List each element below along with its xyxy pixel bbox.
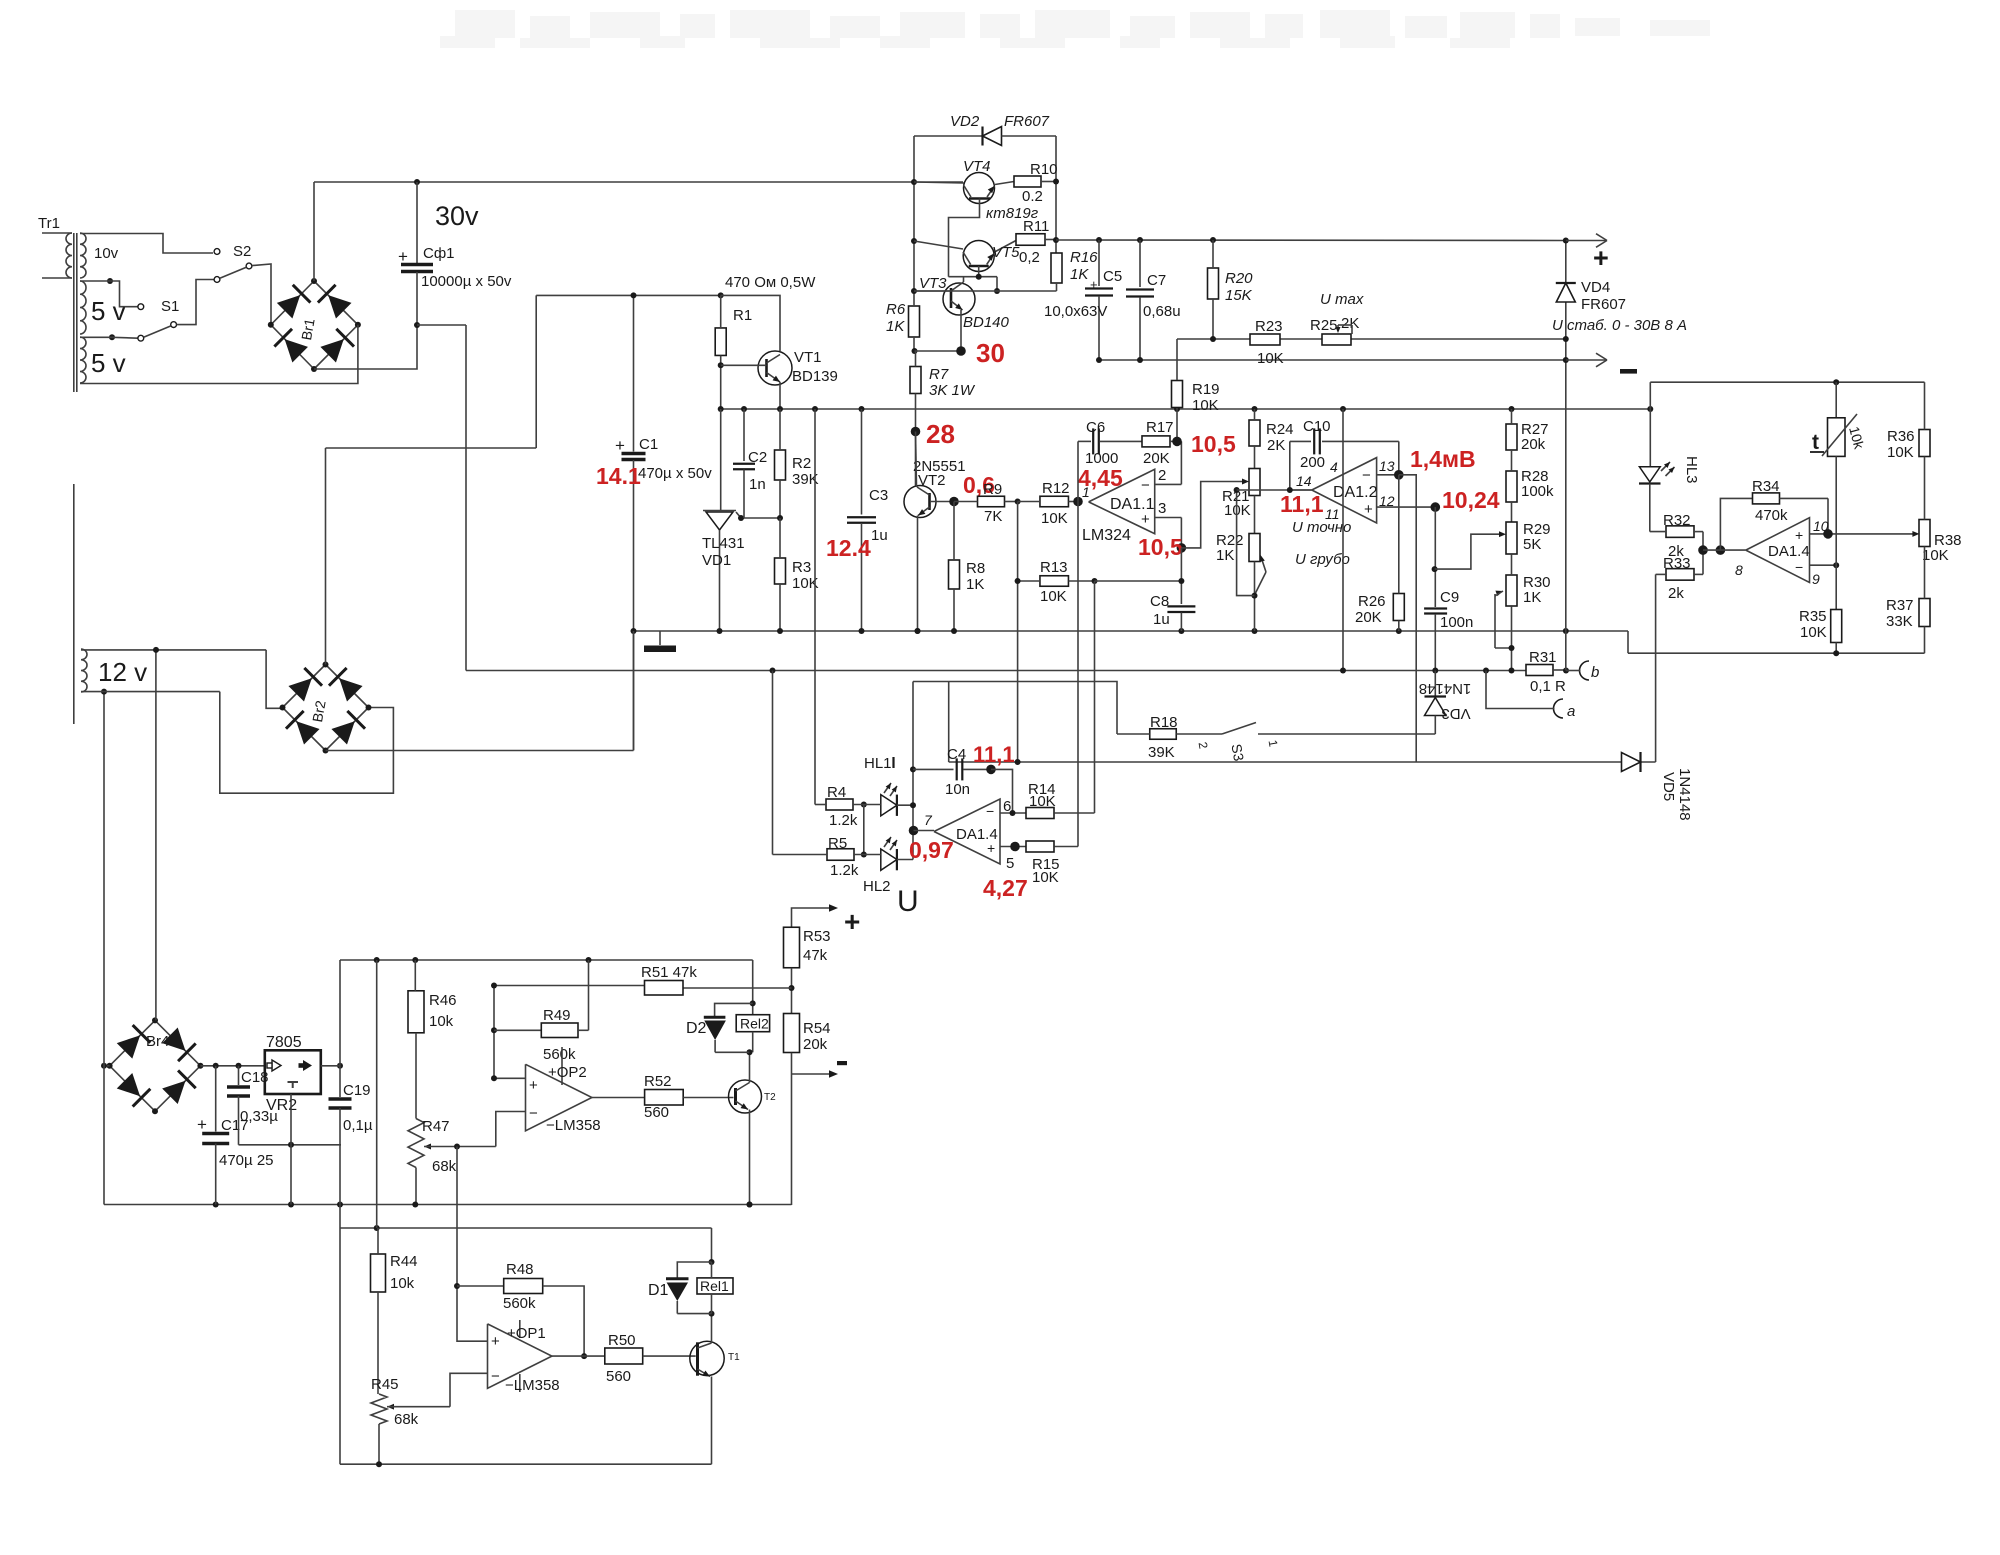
resistor R28 bbox=[1506, 450, 1554, 522]
svg-text:30: 30 bbox=[976, 338, 1005, 368]
wire x104 bbox=[103, 692, 105, 1205]
svg-text:C7: C7 bbox=[1147, 272, 1166, 289]
capacitor C9 bbox=[1424, 507, 1473, 670]
svg-text:VD3: VD3 bbox=[1441, 705, 1470, 722]
node C4 right tp bbox=[986, 765, 996, 775]
potentiometer R21 bbox=[1222, 469, 1260, 520]
label HL1 bbox=[864, 755, 894, 772]
relay Rel2 bbox=[736, 1015, 769, 1056]
svg-text:R17: R17 bbox=[1146, 419, 1174, 436]
wire cap bottom to x466 bbox=[417, 324, 466, 326]
plus arrow out bbox=[792, 904, 861, 937]
resistor R12 bbox=[1018, 480, 1078, 527]
node rail670 DA12 pin11 bbox=[1340, 668, 1346, 674]
node R20 top bbox=[1210, 237, 1216, 243]
svg-text:−: − bbox=[1362, 467, 1371, 484]
label U bbox=[897, 885, 919, 918]
wire y295 link bbox=[536, 294, 721, 296]
transistor VT5 bbox=[914, 241, 1020, 272]
node VT5 bus bbox=[911, 238, 917, 244]
wire rel2 chain bbox=[750, 960, 756, 1015]
svg-text:100n: 100n bbox=[1440, 614, 1473, 631]
node pin14 link bbox=[1234, 487, 1240, 493]
potentiometer R22 bbox=[1216, 532, 1266, 593]
resistor R14 bbox=[1026, 781, 1095, 819]
secondary winding 5v upper bbox=[80, 281, 126, 334]
svg-text:R35: R35 bbox=[1799, 608, 1827, 625]
svg-text:2: 2 bbox=[1158, 467, 1166, 484]
svg-text:12 v: 12 v bbox=[98, 657, 147, 687]
svg-text:3: 3 bbox=[1158, 500, 1166, 517]
svg-text:0,97: 0,97 bbox=[909, 837, 954, 863]
svg-text:BD140: BD140 bbox=[963, 314, 1010, 331]
node C7 top bbox=[1137, 237, 1143, 243]
svg-text:R20: R20 bbox=[1225, 270, 1253, 287]
wire R51 line bbox=[494, 986, 792, 989]
wire VT2 collector bbox=[916, 432, 917, 488]
wire to DA1.4 bbox=[1703, 549, 1746, 551]
capacitor C5 bbox=[1044, 240, 1122, 360]
wire T1 collector bbox=[709, 1311, 715, 1343]
potentiometer R30 bbox=[1495, 554, 1551, 670]
svg-text:VD4: VD4 bbox=[1581, 279, 1610, 296]
wire right vertical x1056 bbox=[1055, 136, 1057, 253]
resistor R4 bbox=[815, 784, 881, 829]
svg-text:13: 13 bbox=[1379, 458, 1395, 474]
node R35 bottom bbox=[1833, 650, 1839, 656]
potentiometer R38 bbox=[1919, 457, 1962, 565]
potentiometer R47 bbox=[408, 1033, 496, 1205]
svg-text:0,2: 0,2 bbox=[1019, 249, 1040, 266]
node bus A bbox=[718, 406, 724, 412]
node bus A bbox=[859, 406, 865, 412]
capacitor C3 bbox=[847, 409, 888, 631]
value 11,1 C4 bbox=[973, 742, 1015, 767]
node R34 tap bbox=[1716, 545, 1726, 555]
value 30 bbox=[976, 338, 1005, 368]
svg-text:R54: R54 bbox=[803, 1020, 831, 1037]
svg-text:C19: C19 bbox=[343, 1082, 371, 1099]
transformer primary winding bbox=[42, 233, 72, 278]
diode D2 bbox=[686, 1003, 753, 1052]
svg-text:C10: C10 bbox=[1303, 418, 1331, 435]
svg-text:0,33µ: 0,33µ bbox=[240, 1108, 278, 1125]
svg-text:S2: S2 bbox=[233, 243, 251, 260]
node y360 C5 bbox=[1096, 357, 1102, 363]
svg-text:C3: C3 bbox=[869, 487, 888, 504]
capacitor Cf1 bbox=[398, 182, 512, 325]
svg-text:0,1 R: 0,1 R bbox=[1530, 678, 1566, 695]
svg-text:VD1: VD1 bbox=[702, 552, 731, 569]
rail OP1 top bbox=[340, 1225, 712, 1231]
node ground bus R26 bbox=[1396, 628, 1402, 634]
wire R22 to pin14 bbox=[1237, 490, 1255, 596]
svg-text:VT3: VT3 bbox=[919, 275, 947, 292]
resistor R32 bbox=[1650, 484, 1703, 561]
svg-text:10v: 10v bbox=[94, 245, 119, 262]
svg-text:VD5: VD5 bbox=[1660, 772, 1677, 801]
svg-text:10k: 10k bbox=[429, 1013, 454, 1030]
svg-text:0,68u: 0,68u bbox=[1143, 303, 1181, 320]
svg-text:+: + bbox=[529, 1077, 538, 1094]
svg-text:560k: 560k bbox=[503, 1295, 536, 1312]
wire DA1.2 power pin4 bbox=[1342, 409, 1344, 671]
wire pin6 bbox=[1000, 810, 1026, 816]
node R17 right bbox=[1172, 437, 1182, 447]
label 470 Om bbox=[725, 274, 816, 291]
resistor R53 bbox=[784, 927, 831, 968]
svg-text:HL2: HL2 bbox=[863, 878, 891, 895]
ground symbol bbox=[644, 631, 676, 652]
wire x494 bbox=[491, 983, 497, 1079]
svg-text:U грубо: U грубо bbox=[1295, 551, 1350, 568]
value 28 bbox=[926, 419, 955, 449]
capacitor C6 bbox=[1078, 419, 1142, 502]
wire 12v top bbox=[81, 647, 266, 653]
svg-text:2k: 2k bbox=[1668, 585, 1684, 602]
svg-text:b: b bbox=[1591, 664, 1599, 681]
node Cf1 bottom bbox=[414, 322, 420, 328]
svg-text:8: 8 bbox=[1735, 562, 1743, 578]
wire pin1 to R15 bbox=[1077, 502, 1079, 847]
svg-text:VD2: VD2 bbox=[950, 113, 980, 130]
wire busA end down to HL3 bbox=[1649, 409, 1651, 467]
svg-text:S1: S1 bbox=[161, 298, 179, 315]
wire S1 to S2 bbox=[177, 280, 214, 325]
node ground bus C1 bbox=[631, 628, 637, 634]
current sense rail y670 bbox=[466, 670, 1526, 672]
30v bus wire bbox=[314, 182, 963, 231]
wire pin9 bbox=[1810, 564, 1837, 566]
resistor R1 bbox=[715, 295, 752, 409]
resistor R49 bbox=[494, 960, 589, 1063]
svg-text:C4: C4 bbox=[947, 746, 966, 763]
resistor R37 bbox=[1886, 547, 1930, 654]
op-amp DA1.2 bbox=[1296, 458, 1395, 523]
svg-text:R45: R45 bbox=[371, 1376, 399, 1393]
capacitor C18 bbox=[227, 1066, 278, 1145]
value 11,1 bbox=[1280, 491, 1324, 517]
svg-text:+: + bbox=[491, 1333, 500, 1350]
svg-text:VT5: VT5 bbox=[992, 244, 1020, 261]
node R5 HL2 bbox=[861, 852, 867, 858]
svg-text:Rel2: Rel2 bbox=[740, 1016, 769, 1032]
value 4,45 bbox=[1078, 465, 1123, 491]
svg-text:C6: C6 bbox=[1086, 419, 1105, 436]
node C1 top bbox=[631, 292, 637, 298]
terminal b bbox=[1566, 661, 1599, 681]
svg-text:R8: R8 bbox=[966, 560, 985, 577]
node rail5 R49 bbox=[586, 957, 592, 963]
node bottom rail x340 bbox=[337, 1202, 343, 1208]
wire C4 to pin6 bbox=[991, 769, 1013, 813]
node pin12 tp bbox=[1431, 502, 1441, 512]
node C5 top bbox=[1096, 237, 1102, 243]
wire R18 left up bbox=[913, 682, 1117, 735]
svg-text:HL1: HL1 bbox=[864, 755, 892, 772]
svg-text:BD139: BD139 bbox=[792, 368, 838, 385]
transformer Tr1 label bbox=[38, 215, 60, 232]
resistor R7 bbox=[910, 351, 976, 486]
node VT3 base bbox=[911, 288, 917, 294]
wire x340 bbox=[339, 960, 341, 1066]
resistor R52 bbox=[644, 1073, 734, 1121]
svg-text:+: + bbox=[1141, 511, 1150, 528]
node ground bus R3 bbox=[777, 628, 783, 634]
transistor VT4 kt819 bbox=[914, 158, 1014, 204]
resistor R5 bbox=[773, 835, 881, 879]
svg-text:HL3: HL3 bbox=[1683, 456, 1700, 484]
label HL2 bbox=[863, 878, 891, 895]
resistor R20 bbox=[1208, 240, 1254, 339]
diode VD5 bbox=[1622, 752, 1694, 821]
svg-text:4: 4 bbox=[1330, 459, 1338, 475]
svg-text:10K: 10K bbox=[1922, 547, 1949, 564]
svg-text:R23: R23 bbox=[1255, 318, 1283, 335]
wire VT4 base stem bbox=[949, 199, 980, 277]
svg-text:R12: R12 bbox=[1042, 480, 1070, 497]
svg-text:R16: R16 bbox=[1070, 249, 1098, 266]
svg-text:1: 1 bbox=[1082, 484, 1090, 500]
wire Br1 bottom to cap bbox=[314, 325, 417, 369]
label U grubo bbox=[1295, 551, 1350, 568]
svg-text:+: + bbox=[844, 906, 860, 937]
svg-text:10K: 10K bbox=[1041, 510, 1068, 527]
resistor R3 bbox=[775, 518, 819, 631]
wire R1 top to VT1 collector bbox=[721, 295, 780, 351]
node ground bus VD4 line bbox=[1563, 628, 1569, 634]
wire pin13 down x1416 bbox=[1399, 475, 1416, 762]
shunt regulator VD1 TL431 bbox=[702, 511, 745, 632]
svg-text:+: + bbox=[1090, 277, 1098, 292]
resistor R46 bbox=[408, 960, 457, 1033]
node pin13 tp bbox=[1394, 470, 1404, 480]
node rail5 R44 bbox=[374, 957, 380, 963]
wire R13 to R14 bbox=[1094, 581, 1096, 813]
op-amp DA1.1 bbox=[1082, 467, 1166, 544]
node rail670 R30 bbox=[1509, 668, 1515, 674]
node ground bus C3 bbox=[859, 628, 865, 634]
svg-text:R5: R5 bbox=[828, 835, 847, 852]
node R2 bottom bbox=[777, 515, 783, 521]
svg-text:10,24: 10,24 bbox=[1442, 487, 1500, 513]
svg-text:+: + bbox=[1593, 243, 1609, 273]
wire pin2 bbox=[1155, 441, 1182, 484]
svg-text:1n: 1n bbox=[749, 476, 766, 493]
svg-text:10K: 10K bbox=[1800, 624, 1827, 641]
main bus upper right bbox=[1056, 239, 1566, 242]
capacitor C8 bbox=[1150, 548, 1195, 631]
wire Br1 right to 5v winding bbox=[80, 325, 358, 384]
op-amp OP2 bbox=[526, 1047, 601, 1134]
node OP1 out bbox=[581, 1353, 587, 1359]
svg-text:560: 560 bbox=[644, 1104, 669, 1121]
svg-text:20k: 20k bbox=[803, 1036, 828, 1053]
svg-text:1.2k: 1.2k bbox=[830, 862, 859, 879]
wire OP2 out bbox=[592, 1097, 645, 1099]
node R10 right bbox=[1053, 179, 1059, 185]
wire TL431 ref bbox=[738, 515, 780, 521]
svg-text:10,5: 10,5 bbox=[1138, 534, 1183, 560]
bridge rectifier Br4 bbox=[107, 1017, 204, 1114]
node bus A bbox=[1174, 406, 1180, 412]
node plus out bbox=[1563, 238, 1569, 244]
svg-text:R46: R46 bbox=[429, 992, 457, 1009]
wire x536 vertical bbox=[535, 295, 537, 448]
svg-text:R9: R9 bbox=[983, 481, 1002, 498]
node bottom rail C17 bbox=[213, 1202, 219, 1208]
wire pin14 bbox=[1237, 489, 1312, 491]
wire y360 minus rail bbox=[1099, 359, 1566, 361]
wire 12v bottom to Br2 bbox=[220, 692, 394, 794]
value 10,24 bbox=[1442, 487, 1500, 513]
svg-text:4,27: 4,27 bbox=[983, 875, 1028, 901]
svg-text:R47: R47 bbox=[422, 1118, 450, 1135]
node R12 left bbox=[1015, 499, 1021, 505]
wire Br4 left bbox=[101, 1063, 110, 1069]
svg-text:R50: R50 bbox=[608, 1332, 636, 1349]
node y360 C7 bbox=[1137, 357, 1143, 363]
wire pin10 bbox=[1810, 531, 1920, 537]
svg-text:20K: 20K bbox=[1143, 450, 1170, 467]
svg-text:9: 9 bbox=[1812, 571, 1820, 587]
svg-text:15K: 15K bbox=[1225, 287, 1253, 304]
node DA1.1 pin1 bbox=[1073, 497, 1083, 507]
svg-text:R25: R25 bbox=[1310, 317, 1338, 334]
wire TL431 cathode bbox=[720, 409, 722, 510]
svg-text:2K: 2K bbox=[1341, 315, 1359, 332]
potentiometer R45 bbox=[371, 1376, 450, 1464]
wire pin3 to R21 wiper bbox=[1181, 479, 1249, 548]
resistor R51 bbox=[641, 964, 697, 995]
label kt819g bbox=[986, 205, 1039, 222]
svg-text:1N4148: 1N4148 bbox=[1419, 680, 1472, 697]
node rail670 a bbox=[1483, 668, 1489, 674]
resistor R6 bbox=[886, 301, 920, 351]
wire pin13 bbox=[1377, 474, 1399, 476]
node DA1.4 input bbox=[1698, 545, 1708, 555]
svg-text:R49: R49 bbox=[543, 1007, 571, 1024]
resistor R54 bbox=[784, 1014, 831, 1054]
wire top rail right bbox=[1650, 382, 1924, 409]
ground bus bbox=[634, 631, 1925, 653]
node bus A bbox=[1647, 406, 1653, 412]
svg-text:10K: 10K bbox=[1192, 397, 1219, 414]
svg-text:R31: R31 bbox=[1529, 649, 1557, 666]
svg-text:+: + bbox=[398, 247, 408, 266]
wire R21-R22 bbox=[1254, 496, 1256, 534]
rail OP1 bottom bbox=[340, 1461, 712, 1467]
node ground bus VT2 bbox=[915, 628, 921, 634]
svg-text:R11: R11 bbox=[1023, 218, 1049, 235]
capacitor C10 bbox=[1287, 418, 1399, 493]
svg-text:LM324: LM324 bbox=[1082, 527, 1131, 544]
svg-text:U: U bbox=[897, 885, 919, 918]
svg-text:R2: R2 bbox=[792, 455, 811, 472]
svg-text:470 Ом 0,5W: 470 Ом 0,5W bbox=[725, 274, 816, 291]
wire minus in chain bbox=[450, 1373, 488, 1406]
svg-text:10K: 10K bbox=[1032, 869, 1059, 886]
wire C9 to R29 wiper bbox=[1435, 531, 1506, 569]
node R4 HL1 bbox=[861, 802, 867, 808]
svg-text:R36: R36 bbox=[1887, 428, 1915, 445]
wire VT3 emitter bbox=[960, 310, 962, 351]
svg-text:28: 28 bbox=[926, 419, 955, 449]
svg-text:R6: R6 bbox=[886, 301, 906, 318]
wire Br4 top bbox=[155, 650, 157, 1021]
node 12v bottom tap bbox=[101, 689, 107, 695]
node R20 bottom bbox=[1210, 336, 1216, 342]
capacitor C4 bbox=[913, 746, 991, 798]
node bottom rail T2 bbox=[747, 1202, 753, 1208]
svg-text:7K: 7K bbox=[984, 508, 1002, 525]
wire Br2 top bbox=[325, 448, 327, 665]
ghost watermark text bbox=[440, 10, 1710, 48]
resistor R9 bbox=[954, 481, 1018, 525]
node bus A bbox=[1509, 406, 1515, 412]
led HL1 bbox=[881, 783, 916, 816]
svg-text:a: a bbox=[1567, 703, 1575, 720]
svg-text:FR607: FR607 bbox=[1581, 296, 1626, 313]
svg-text:VT1: VT1 bbox=[794, 349, 822, 366]
svg-text:C1: C1 bbox=[639, 436, 658, 453]
svg-text:R53: R53 bbox=[803, 928, 831, 945]
svg-text:1K: 1K bbox=[1216, 547, 1234, 564]
capacitor C17 bbox=[197, 1066, 274, 1205]
resistor R24 bbox=[1249, 409, 1294, 469]
secondary winding 10v bbox=[80, 233, 119, 278]
node R11 right bbox=[1053, 237, 1059, 243]
svg-text:1u: 1u bbox=[1153, 611, 1170, 628]
transistor T1 bbox=[690, 1341, 740, 1376]
resistor R8 bbox=[949, 502, 986, 632]
value 0,97 bbox=[909, 837, 954, 863]
svg-text:+: + bbox=[197, 1115, 207, 1134]
transistor VT2 bbox=[904, 458, 966, 518]
svg-text:+: + bbox=[615, 436, 625, 455]
node 0.6 test point bbox=[949, 497, 959, 507]
svg-text:200: 200 bbox=[1300, 454, 1325, 471]
svg-text:t: t bbox=[1812, 431, 1819, 454]
bottom rail bbox=[104, 1204, 792, 1206]
wire left vertical x914 bbox=[913, 136, 915, 305]
wire tap1 to S1 bbox=[80, 281, 138, 307]
svg-text:5: 5 bbox=[1006, 855, 1014, 872]
secondary winding 5v lower bbox=[80, 337, 126, 383]
wire x948 drop bbox=[948, 682, 950, 763]
sense rail y762 bbox=[949, 761, 1656, 763]
svg-text:DA1.2: DA1.2 bbox=[1333, 484, 1378, 501]
wire x913 vertical bbox=[912, 682, 914, 860]
svg-text:2K: 2K bbox=[1267, 437, 1285, 454]
svg-text:Tr1: Tr1 bbox=[38, 215, 60, 232]
resistor R13 bbox=[1018, 559, 1095, 605]
rail +5 bbox=[340, 959, 753, 961]
svg-text:+OP1: +OP1 bbox=[507, 1325, 546, 1342]
switch S2 bbox=[214, 243, 252, 282]
resistor R31 bbox=[1526, 649, 1566, 695]
resistor R50 bbox=[552, 1332, 696, 1385]
svg-text:10,0x63V: 10,0x63V bbox=[1044, 303, 1107, 320]
svg-text:0.2: 0.2 bbox=[1022, 188, 1043, 205]
svg-text:R52: R52 bbox=[644, 1073, 672, 1090]
svg-text:0,1µ: 0,1µ bbox=[343, 1117, 373, 1134]
svg-text:−: − bbox=[529, 1105, 538, 1122]
svg-text:T1: T1 bbox=[728, 1352, 740, 1363]
capacitor C19 bbox=[329, 1066, 373, 1205]
svg-text:+OP2: +OP2 bbox=[548, 1064, 587, 1081]
svg-text:R24: R24 bbox=[1266, 421, 1294, 438]
